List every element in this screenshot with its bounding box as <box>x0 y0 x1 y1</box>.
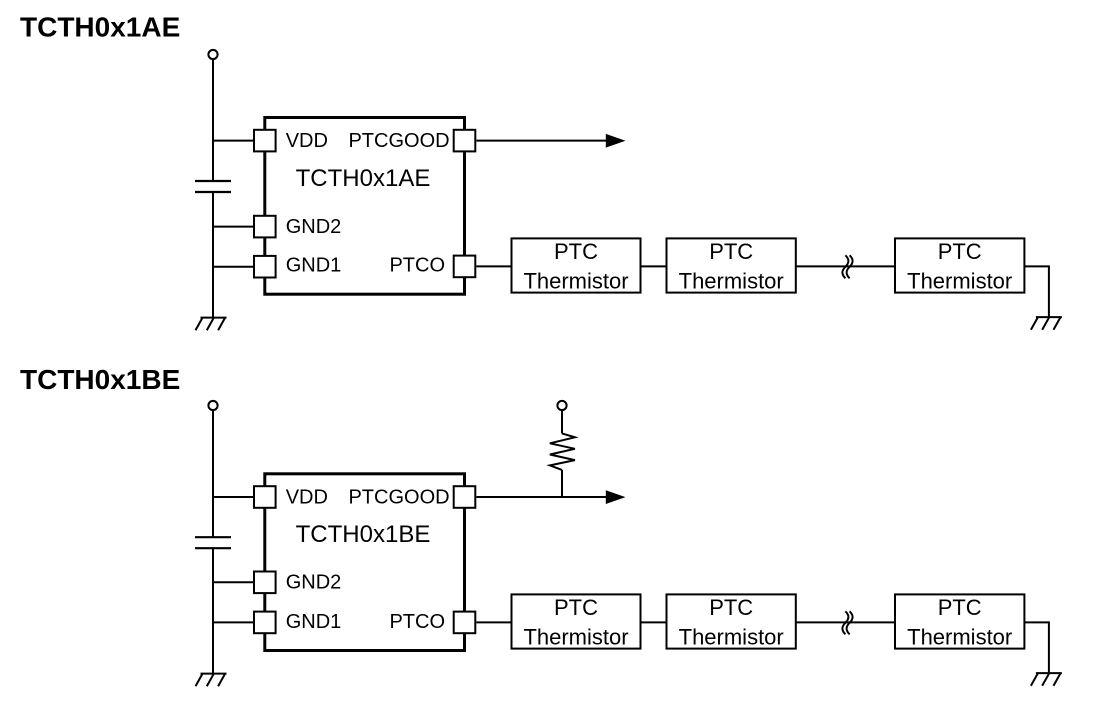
ground right A <box>1031 317 1062 330</box>
PTC thermistor 3 A box <box>895 238 1024 292</box>
svg-text:PTCO: PTCO <box>389 255 445 277</box>
svg-text:Thermistor: Thermistor <box>907 625 1012 650</box>
arrowhead PTCGOOD A <box>606 134 626 148</box>
svg-text:Thermistor: Thermistor <box>679 625 784 650</box>
svg-text:PTCGOOD: PTCGOOD <box>348 486 449 508</box>
wire PTCO to thermistor 1 B <box>476 621 510 623</box>
wire resistor to PTCGOOD line B <box>561 470 563 497</box>
ground left B <box>196 674 227 687</box>
svg-text:TCTH0x1BE: TCTH0x1BE <box>20 364 180 395</box>
svg-text:VDD: VDD <box>286 486 328 508</box>
wire VDD branch B <box>213 496 254 498</box>
svg-text:PTCGOOD: PTCGOOD <box>348 130 449 152</box>
wire GND1 branch A <box>213 266 254 268</box>
svg-text:VDD: VDD <box>286 130 328 152</box>
svg-text:TCTH0x1AE: TCTH0x1AE <box>20 12 180 43</box>
svg-text:PTC: PTC <box>938 595 982 620</box>
svg-text:GND2: GND2 <box>286 572 342 594</box>
wire thermistor 1 to 2 B <box>641 621 667 623</box>
PTC thermistor 3 B box <box>895 594 1024 648</box>
wire VDD rail upper A <box>212 60 214 182</box>
svg-text:TCTH0x1AE: TCTH0x1AE <box>296 165 431 192</box>
pin PTCGOOD square A <box>454 130 476 152</box>
wire thermistor 3 to ground A <box>1024 266 1049 317</box>
pin GND2 square A <box>254 216 276 238</box>
wire thermistor 2 to 3 B <box>796 621 895 623</box>
svg-text:GND2: GND2 <box>286 216 342 238</box>
wire VDD rail upper B <box>212 411 214 538</box>
arrowhead PTCGOOD B <box>606 490 626 504</box>
wire GND2 branch A <box>213 226 254 228</box>
break symbol B <box>842 611 852 634</box>
wire PTCGOOD output B <box>476 496 606 498</box>
svg-text:Thermistor: Thermistor <box>679 269 784 294</box>
PTC thermistor 1 A box <box>512 238 641 292</box>
svg-text:PTCO: PTCO <box>389 611 445 633</box>
resistor R1 pull-up <box>550 433 575 470</box>
PTC thermistor 2 A box <box>667 238 796 292</box>
ground right B <box>1031 673 1062 686</box>
capacitor C1 <box>195 181 231 192</box>
wire terminal to resistor B <box>561 411 563 434</box>
svg-text:PTC: PTC <box>709 239 753 264</box>
capacitor C2 <box>195 537 231 548</box>
svg-text:Thermistor: Thermistor <box>523 269 628 294</box>
PTC thermistor 1 B box <box>512 594 641 648</box>
wire PTCO to thermistor 1 A <box>476 265 510 267</box>
pin VDD square A <box>254 130 276 152</box>
wire GND rail lower B <box>212 548 214 673</box>
pin PTCO square A <box>454 256 476 278</box>
wire GND1 branch B <box>213 621 254 623</box>
svg-text:Thermistor: Thermistor <box>907 269 1012 294</box>
wire thermistor 3 to ground B <box>1024 622 1049 673</box>
break symbol A <box>842 255 852 278</box>
pin GND1 square B <box>254 612 276 634</box>
node pull-up terminal B <box>557 401 566 410</box>
wire thermistor 2 to 3 A <box>796 265 895 267</box>
svg-text:PTC: PTC <box>554 239 598 264</box>
pin VDD square B <box>254 486 276 508</box>
pin GND2 square B <box>254 572 276 594</box>
svg-text:GND1: GND1 <box>286 611 342 633</box>
svg-text:Thermistor: Thermistor <box>523 625 628 650</box>
node VDD supply terminal A <box>208 50 217 59</box>
pin PTCO square B <box>454 612 476 634</box>
node VDD supply terminal B <box>208 401 217 410</box>
wire PTCGOOD output A <box>476 140 606 142</box>
ground left A <box>196 318 227 331</box>
wire GND2 branch B <box>213 581 254 583</box>
svg-text:PTC: PTC <box>709 595 753 620</box>
svg-text:GND1: GND1 <box>286 255 342 277</box>
wire thermistor 1 to 2 A <box>641 265 667 267</box>
pin GND1 square A <box>254 256 276 278</box>
pin PTCGOOD square B <box>454 486 476 508</box>
PTC thermistor 2 B box <box>667 594 796 648</box>
svg-text:PTC: PTC <box>938 239 982 264</box>
wire GND rail lower A <box>212 192 214 318</box>
svg-text:PTC: PTC <box>554 595 598 620</box>
IC U2 TCTH0x1BE body <box>265 474 465 651</box>
wire VDD branch A <box>213 140 254 142</box>
svg-text:TCTH0x1BE: TCTH0x1BE <box>296 521 431 548</box>
IC U1 TCTH0x1AE body <box>265 118 465 295</box>
